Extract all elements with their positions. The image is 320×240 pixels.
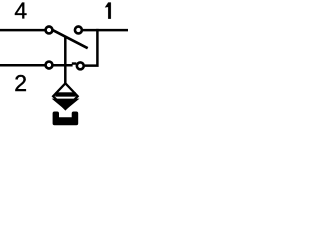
pin label 1 — [105, 3, 111, 19]
liquid fill chevron — [53, 99, 78, 109]
liquid surface bar — [55, 92, 76, 96]
pendulum rod — [64, 36, 67, 84]
wire contact D to contact C — [54, 64, 73, 66]
contact circle D (pin 2) — [46, 62, 53, 69]
wire pin 1 vertical elbow to bottom contact — [85, 29, 98, 66]
wire pin 4 — [0, 29, 45, 32]
wire pin 2 — [0, 64, 45, 67]
contact circle C (bottom throw) — [77, 62, 84, 69]
wire jog segment at contact C — [72, 62, 77, 64]
base cup — [53, 112, 79, 126]
svg-text:4: 4 — [14, 0, 27, 24]
wire pin 1 — [83, 29, 128, 32]
switch lever — [52, 30, 87, 48]
contact circle A (pin 4) — [46, 27, 53, 34]
pendulum weight diamond outline — [53, 83, 78, 109]
contact circle B (pin 1 top throw) — [75, 27, 82, 34]
svg-text:2: 2 — [14, 70, 27, 96]
